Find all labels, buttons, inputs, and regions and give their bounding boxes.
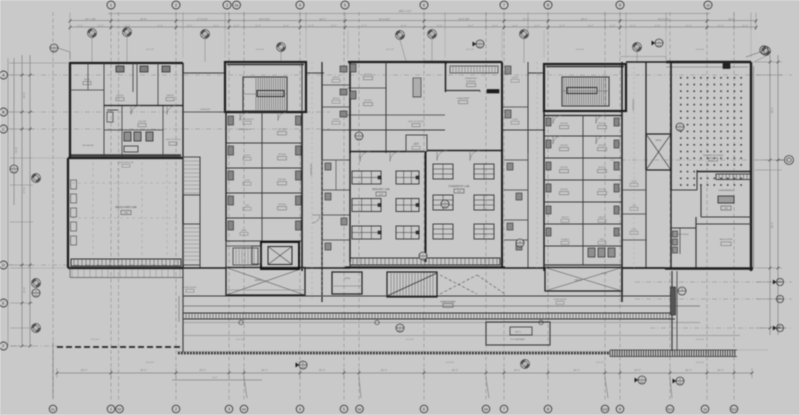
svg-text:OFFICE: OFFICE [598, 122, 606, 125]
conference room [701, 184, 751, 217]
left lab terrace [70, 268, 183, 278]
svg-text:OFFICE: OFFICE [561, 216, 569, 219]
scattered room tags [118, 76, 638, 304]
svg-text:OFFICE: OFFICE [166, 94, 174, 97]
svg-text:113: 113 [379, 193, 383, 196]
callout bubble 9/A41 [355, 132, 363, 140]
svg-text:STOR: STOR [244, 179, 250, 182]
chem lab benches [433, 164, 494, 239]
grid line 6 [423, 12, 425, 402]
site crosshatch band east [610, 350, 737, 357]
svg-text:12'-4 1/2": 12'-4 1/2" [446, 361, 455, 364]
grid bubble top 4 [296, 1, 304, 9]
svg-text:29'-0": 29'-0" [199, 369, 206, 372]
center-top office walls [348, 62, 445, 153]
callout bubble 6/A71 [10, 165, 18, 173]
svg-text:12'-4 1/2": 12'-4 1/2" [146, 361, 155, 364]
grid line S8 [485, 12, 487, 402]
callout bubble 4/A41 [441, 200, 449, 208]
svg-text:12'-0": 12'-0" [742, 25, 748, 28]
grid bubble top 5 [341, 1, 349, 9]
grid bubble bottom 7 [500, 405, 508, 413]
svg-text:12'-0": 12'-0" [534, 25, 540, 28]
callout bubble 8/ [762, 47, 771, 56]
terrace line y335 [183, 335, 740, 337]
chem prep room [457, 90, 499, 104]
svg-text:WOMEN: WOMEN [561, 238, 569, 241]
left lab walls [68, 156, 200, 269]
svg-text:12'-0": 12'-0" [233, 25, 239, 28]
svg-text:17'-8 1/2": 17'-8 1/2" [197, 18, 208, 21]
grid line 9 [619, 12, 621, 402]
svg-text:C: C [2, 127, 5, 132]
svg-text:CAM RM: CAM RM [138, 120, 146, 123]
grid bubble bottom S6 [356, 405, 364, 413]
svg-text:JAN: JAN [245, 204, 249, 207]
grid line 1 [110, 12, 112, 402]
svg-text:12'-0": 12'-0" [467, 25, 473, 28]
left block desks [116, 66, 170, 72]
bio lab west wall [349, 151, 351, 262]
svg-text:12'-0": 12'-0" [361, 25, 367, 28]
svg-text:JAN: JAN [632, 204, 636, 207]
svg-text:12'-4 1/2": 12'-4 1/2" [406, 338, 415, 341]
svg-text:30'-0": 30'-0" [23, 92, 26, 98]
svg-text:104: 104 [124, 212, 129, 215]
svg-text:E: E [2, 301, 5, 306]
grid bubble top S4 [233, 1, 241, 9]
svg-text:29'-0": 29'-0" [514, 369, 521, 372]
svg-text:12'-0": 12'-0" [213, 25, 219, 28]
svg-text:12'-0": 12'-0" [186, 25, 192, 28]
svg-text:29'-0": 29'-0" [140, 369, 147, 372]
svg-text:12'-0": 12'-0" [255, 25, 261, 28]
svg-text:S1: S1 [51, 408, 55, 412]
wall right block east [751, 62, 754, 271]
labs center wall [425, 151, 427, 262]
grid bubble left B [0, 108, 8, 116]
grid bubble bottom 9 [616, 405, 624, 413]
svg-text:BIOLD RES LAB: BIOLD RES LAB [118, 161, 134, 164]
grid line 8 [547, 12, 549, 402]
right block rooms between corridors [622, 170, 665, 268]
svg-text:29'-0": 29'-0" [81, 369, 88, 372]
callout S7 right edge [778, 156, 794, 165]
grid bubble bottom S8 [482, 405, 490, 413]
wall left block top [70, 63, 226, 73]
svg-text:BIOLD RES LAB: BIOLD RES LAB [116, 205, 137, 209]
svg-text:OFFICE: OFFICE [598, 216, 606, 219]
grid bubble top 7 [500, 1, 508, 9]
svg-text:OPEN: OPEN [255, 279, 262, 282]
svg-text:29'-0": 29'-0" [685, 369, 692, 372]
svg-text:BIOLOGY LAB: BIOLOGY LAB [372, 188, 390, 191]
right office labels [560, 122, 607, 195]
callout bubble 8/A42 [516, 239, 524, 247]
south stair [387, 272, 437, 297]
grid bubble top 3 [223, 1, 231, 9]
svg-text:CONCOURSE: CONCOURSE [553, 298, 567, 301]
terrace line y322 [183, 322, 700, 324]
callout bubble 3/ [201, 30, 210, 39]
grid bubble bottom 8 [544, 405, 552, 413]
svg-text:12'-4 1/2": 12'-4 1/2" [696, 48, 705, 51]
bubble leaders bottom [53, 342, 672, 398]
right office block walls [544, 62, 622, 302]
svg-text:OFFICE: OFFICE [560, 144, 568, 147]
svg-text:B: B [2, 110, 5, 115]
grid bubble bottom 6 [420, 405, 428, 413]
svg-text:S10: S10 [602, 408, 608, 412]
svg-text:CONCOURSE: CONCOURSE [440, 301, 456, 304]
grid bubble bottom 10 [701, 405, 709, 413]
right office desks [546, 118, 619, 236]
svg-text:12'-4 1/2": 12'-4 1/2" [696, 361, 705, 364]
grid bubble top 1 [107, 1, 115, 9]
svg-text:12'-4 1/2": 12'-4 1/2" [576, 48, 585, 51]
svg-text:288'-1 1/2": 288'-1 1/2" [399, 10, 412, 13]
elevator core [252, 242, 299, 269]
callout bubble 5/ [88, 29, 97, 38]
grid bubble top 2 [172, 1, 180, 9]
keynote top-left leader [58, 48, 70, 60]
callout bubble 8/A61 [676, 123, 684, 131]
top dimension text [77, 10, 748, 28]
svg-text:OFFICE: OFFICE [278, 128, 287, 131]
svg-text:12'-0": 12'-0" [512, 25, 518, 28]
svg-text:OFFICE: OFFICE [278, 153, 287, 156]
svg-text:STOR: STOR [631, 180, 637, 183]
chem lab label [449, 185, 470, 193]
svg-text:29'-0": 29'-0" [634, 369, 641, 372]
left lab bench band [71, 259, 181, 266]
corridor above offices [183, 108, 226, 112]
grid bubble bottom 4 [296, 405, 304, 413]
grid bubble bottom S12 [730, 405, 738, 413]
grid line 5 [343, 12, 345, 402]
svg-text:MEN: MEN [600, 238, 605, 241]
grid bubble bottom S11 [666, 405, 674, 413]
svg-text:MECH: MECH [515, 331, 521, 334]
concourse walls [183, 296, 700, 307]
grid line 3 [228, 12, 230, 402]
svg-text:29'-0": 29'-0" [381, 369, 388, 372]
callout bubble 1/A51 [50, 44, 58, 52]
svg-text:S4: S4 [235, 4, 239, 8]
grid bubble bottom 3 [225, 405, 233, 413]
grid line S1 [52, 12, 54, 402]
left lab stor rooms [183, 157, 200, 265]
grid bubble left D [0, 261, 8, 269]
svg-text:12'-0": 12'-0" [330, 25, 336, 28]
svg-text:OFFICE: OFFICE [560, 188, 568, 191]
grid line C [8, 128, 330, 130]
callout bubble 7/ [520, 30, 529, 39]
grid bubble top 10 [704, 1, 712, 9]
top step line right [620, 57, 666, 63]
svg-text:16'-0": 16'-0" [728, 18, 735, 21]
svg-text:S2: S2 [118, 408, 122, 412]
right edge markers [773, 278, 784, 331]
canopy column west [179, 268, 183, 352]
corridor dashes [312, 62, 634, 300]
grid bubble left E [0, 299, 8, 307]
svg-text:OFFICE: OFFICE [116, 94, 124, 97]
callout bubble 9/ [678, 287, 686, 295]
svg-text:SEATING ALCOVES: SEATING ALCOVES [703, 154, 724, 157]
grid line G-left [0, 345, 58, 347]
grid line S7h [610, 159, 788, 161]
svg-text:VEST: VEST [413, 143, 419, 146]
grid line S12 [733, 12, 735, 402]
svg-text:CORRIDOR: CORRIDOR [310, 163, 313, 176]
svg-text:CORRIDOR: CORRIDOR [632, 99, 635, 111]
center room column walls [322, 62, 350, 153]
svg-text:DECONTAM: DECONTAM [82, 144, 94, 147]
svg-text:29'-0 1/2": 29'-0 1/2" [259, 18, 270, 21]
callout bubble 2/ [123, 28, 132, 37]
left lab ceiling grid [72, 162, 180, 256]
callout bubble 5/ [521, 360, 530, 369]
svg-text:12'-0": 12'-0" [283, 25, 289, 28]
svg-text:D: D [2, 263, 5, 268]
svg-text:29'-0": 29'-0" [573, 369, 580, 372]
svg-text:OFFICE: OFFICE [332, 97, 340, 100]
grid line 2 [175, 12, 177, 402]
bio lab label [372, 188, 390, 196]
svg-text:24'-7 3/8": 24'-7 3/8" [85, 18, 96, 21]
grid line F-right [650, 327, 792, 329]
svg-text:18'-0": 18'-0" [319, 18, 326, 21]
svg-text:12'-4 1/2": 12'-4 1/2" [91, 338, 100, 341]
svg-text:CONCOURSE: CONCOURSE [183, 286, 197, 289]
right block seating dots [680, 77, 742, 186]
grid bubble left A [0, 71, 8, 79]
restroom fixtures far right [673, 228, 681, 254]
grid bubble left F [0, 342, 8, 350]
south stair dashed braces [440, 275, 505, 294]
vestibule center [406, 135, 427, 152]
svg-text:10: 10 [706, 4, 710, 8]
grid bubble bottom S2 [116, 405, 124, 413]
svg-text:12'-0": 12'-0" [492, 25, 498, 28]
grid bubble bottom 5 [340, 405, 348, 413]
svg-text:12'-0": 12'-0" [629, 25, 635, 28]
chem storage label [465, 77, 478, 87]
open shaft [646, 134, 671, 170]
svg-text:CHEMISTRY LAB: CHEMISTRY LAB [449, 185, 470, 188]
labs south wall [345, 266, 505, 268]
grid line S2 [118, 12, 120, 402]
svg-text:CHEMISTRY: CHEMISTRY [465, 77, 478, 80]
grid line 10 [706, 12, 708, 402]
callout bubble 6/ [428, 30, 437, 39]
labs bottom bench [350, 258, 500, 265]
top dimension lines [69, 13, 758, 31]
grid bubble bottom S1 [49, 405, 57, 413]
svg-text:OFFICE: OFFICE [364, 73, 372, 76]
svg-text:BUILD STOR: BUILD STOR [720, 238, 733, 241]
right dimension lines [756, 55, 782, 335]
callout bubble 7/A91 [635, 376, 647, 384]
svg-text:MECH: MECH [84, 78, 90, 81]
svg-text:ELEC: ELEC [241, 229, 247, 232]
top marker leaders [92, 37, 766, 63]
chem storage shelves [450, 66, 498, 73]
svg-text:OPEN: OPEN [344, 277, 351, 280]
grid line S11 [669, 12, 671, 402]
grid bubble bottom 1 [107, 405, 115, 413]
svg-text:A: A [2, 73, 5, 78]
extension lines right [737, 62, 768, 350]
svg-text:12'-4 1/2": 12'-4 1/2" [146, 48, 155, 51]
callout bubble 1/ [32, 174, 41, 183]
terrace band A hatched [183, 313, 675, 319]
svg-text:CORRIDOR: CORRIDOR [200, 108, 211, 111]
grid bubble left C [0, 125, 8, 133]
svg-text:OFFICE: OFFICE [560, 122, 568, 125]
corridor 3 walls [632, 62, 646, 170]
svg-text:31'-4 1/2": 31'-4 1/2" [379, 18, 390, 21]
svg-text:CHEM PREP: CHEM PREP [457, 97, 470, 100]
svg-text:14'-8": 14'-8" [15, 147, 18, 153]
svg-text:29'-0": 29'-0" [319, 369, 326, 372]
grid line E-right1 [635, 281, 792, 283]
decontam fixtures [107, 110, 153, 152]
svg-text:12'-0": 12'-0" [654, 25, 660, 28]
grid line S10 [604, 12, 606, 402]
grid bubble bottom S4 [240, 405, 248, 413]
south wall main [183, 267, 665, 269]
svg-text:12'-0": 12'-0" [587, 25, 593, 28]
left block room tags [82, 78, 181, 147]
svg-text:S8: S8 [484, 408, 488, 412]
dimension text smudges [91, 48, 705, 364]
stair tower 2 walls [544, 64, 626, 111]
restroom fixtures right block [588, 248, 615, 257]
svg-text:12'-0": 12'-0" [609, 25, 615, 28]
callout bubble 6/A91 [296, 361, 308, 369]
svg-text:29'-0": 29'-0" [452, 369, 459, 372]
svg-text:10: 10 [703, 408, 707, 412]
svg-text:12'-0": 12'-0" [685, 25, 691, 28]
svg-text:12'-0": 12'-0" [77, 25, 83, 28]
grid line 7 [503, 12, 505, 402]
open bay 3 [545, 268, 622, 292]
svg-text:OFFICE: OFFICE [278, 178, 287, 181]
svg-text:12'-0": 12'-0" [308, 25, 314, 28]
svg-text:12'-4 1/2": 12'-4 1/2" [386, 48, 395, 51]
svg-text:MAKE UP STATION: MAKE UP STATION [408, 120, 425, 123]
svg-text:36'-0": 36'-0" [771, 222, 774, 228]
svg-text:STOR: STOR [512, 118, 518, 121]
svg-text:OFFICE: OFFICE [598, 166, 606, 169]
svg-text:35'-4 1/2": 35'-4 1/2" [658, 18, 669, 21]
callout bubble 2/A81 [652, 39, 664, 47]
svg-text:12'-4 1/2": 12'-4 1/2" [296, 361, 305, 364]
svg-text:17'-2": 17'-2" [523, 18, 530, 21]
callout bubble 8/A91 [673, 377, 685, 385]
grid line 4 [299, 12, 301, 402]
left dimension lines [8, 55, 68, 347]
future vault room [486, 322, 550, 345]
svg-text:OFFICE: OFFICE [598, 188, 606, 191]
svg-text:29'-0": 29'-0" [717, 369, 724, 372]
wall left block west [69, 62, 71, 159]
svg-text:OFFICE: OFFICE [278, 203, 287, 206]
svg-text:OFFICE: OFFICE [560, 166, 568, 169]
callout bubble 3/A31 [32, 289, 40, 297]
mid-left block south rooms [226, 241, 261, 267]
svg-text:OFFICE: OFFICE [332, 76, 340, 79]
grid line B [8, 111, 330, 113]
svg-text:12'-4 1/2": 12'-4 1/2" [516, 338, 525, 341]
bottom dimension line [56, 368, 754, 380]
center room column lower [322, 153, 350, 268]
svg-text:12'-0": 12'-0" [559, 25, 565, 28]
chem storage walls [446, 62, 503, 268]
right block lower rooms [671, 190, 751, 268]
svg-text:12'-4 1/2": 12'-4 1/2" [236, 338, 245, 341]
svg-text:36'-0": 36'-0" [771, 107, 774, 113]
svg-text:12'-4 1/2": 12'-4 1/2" [256, 48, 265, 51]
svg-text:TOILET: TOILET [333, 118, 341, 121]
svg-text:29'-6 3/8": 29'-6 3/8" [459, 18, 470, 21]
make up station wall [386, 115, 445, 127]
svg-text:12'-0": 12'-0" [717, 25, 723, 28]
callout bubble 1/ [277, 43, 286, 52]
svg-text:OFFICE: OFFICE [364, 99, 372, 102]
center-east room column lower [504, 153, 528, 268]
grid line A [8, 74, 792, 76]
svg-text:8'-0": 8'-0" [213, 377, 218, 380]
svg-text:TOILET: TOILET [244, 154, 252, 157]
mid-left office labels [237, 128, 287, 210]
svg-text:30'-8": 30'-8" [140, 18, 147, 21]
callout bubble 1/A91 [396, 324, 404, 332]
wall center top [306, 62, 751, 73]
site dotted band [177, 352, 610, 355]
svg-text:28'-4": 28'-4" [581, 18, 588, 21]
svg-text:12'-4 1/2": 12'-4 1/2" [466, 48, 475, 51]
right block walls [671, 62, 751, 190]
stair tower 1 walls [225, 62, 306, 112]
svg-text:CONFERENCE: CONFERENCE [240, 118, 255, 121]
svg-text:12'-4 1/2": 12'-4 1/2" [696, 338, 705, 341]
svg-text:STORAGE: STORAGE [466, 80, 477, 83]
left lab wall cabinets [71, 180, 77, 245]
svg-text:S11: S11 [667, 408, 673, 412]
extension lines left [33, 63, 68, 268]
svg-text:OFFICE: OFFICE [598, 144, 606, 147]
svg-text:S4: S4 [242, 408, 246, 412]
callout bubble 5/ [633, 43, 642, 52]
stair tower 2 treads [562, 78, 609, 105]
corridor 1 walls [302, 62, 322, 302]
svg-text:12'-0": 12'-0" [157, 25, 163, 28]
grid line D [8, 264, 185, 266]
callout bubble 4/ [32, 324, 41, 333]
svg-text:12'-0": 12'-0" [436, 25, 442, 28]
grid bubble bottom 2 [172, 405, 180, 413]
svg-text:12'-0": 12'-0" [400, 25, 406, 28]
grid line S6 [358, 12, 360, 402]
svg-text:OPEN: OPEN [575, 279, 582, 282]
callout S right edge upper [746, 46, 768, 57]
svg-text:TOILET: TOILET [512, 76, 520, 79]
svg-text:OPEN: OPEN [656, 139, 662, 142]
site heavy dashed segment west [57, 346, 180, 348]
